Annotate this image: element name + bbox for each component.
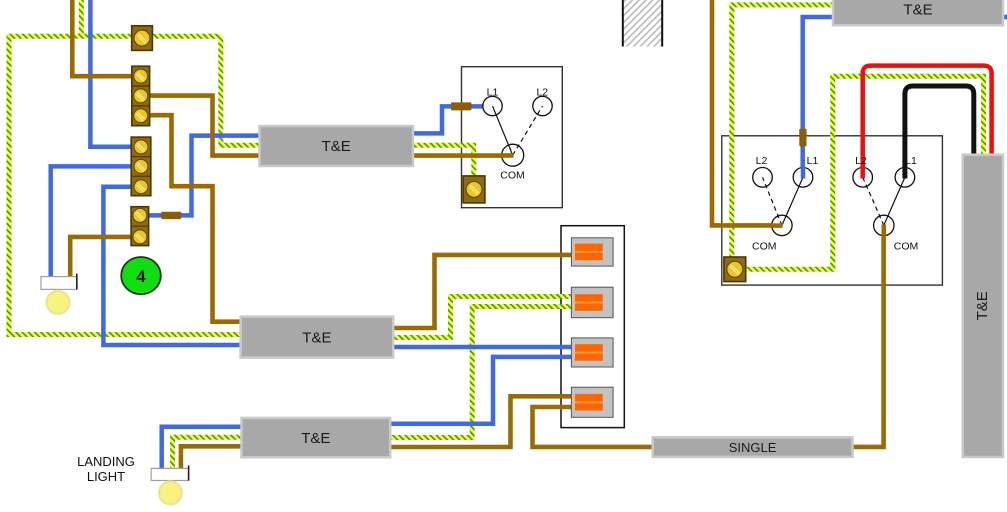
svg-text:T&E: T&E	[903, 2, 932, 19]
terminal T3 2-way	[131, 207, 149, 246]
node L2	[533, 96, 552, 115]
pole solid to L1	[884, 177, 905, 225]
wire brown BR6 single cable to junction U4	[533, 407, 659, 447]
wire red R1 switch2 L2 to vertical T&E	[863, 66, 992, 178]
node L1	[483, 96, 502, 115]
svg-text:L1: L1	[487, 87, 499, 99]
switch2b contacts	[853, 155, 918, 252]
pole solid to L1	[493, 106, 513, 155]
switch box U1 (single two-way switch)	[462, 67, 563, 208]
switch2a contacts	[752, 155, 818, 252]
earth terminal TEB in switch2 box	[724, 257, 746, 282]
wire red stub into L2	[860, 167, 865, 179]
wire blue B4 switched live to switch L1	[140, 106, 493, 215]
svg-text:L2: L2	[536, 87, 548, 99]
node L2	[853, 168, 873, 188]
junction box JB	[561, 226, 624, 428]
wire earth E5 top right loop to vertical T&E	[732, 5, 984, 269]
switch1 contacts	[483, 87, 552, 182]
cable SINGLE	[653, 437, 853, 457]
earth terminal TEA below switch1	[463, 176, 485, 203]
wire brown stub into COM	[771, 223, 783, 228]
sleeve S1 brown sleeve on blue	[161, 212, 181, 219]
wire earth E2 main left loop to junction U2	[9, 36, 580, 337]
svg-text:LIGHT: LIGHT	[87, 469, 125, 484]
wire black stub into L1	[902, 167, 907, 179]
wire earth E1 top stub	[79, 0, 84, 36]
wire brown BR7 switch2 COM to single cable	[846, 225, 884, 447]
svg-text:L2: L2	[855, 155, 867, 167]
junction connector U1	[571, 238, 613, 266]
node COM	[502, 144, 524, 166]
label landing light	[77, 454, 135, 484]
wire earth E3 branch to switch earth terminal	[221, 36, 474, 190]
light2 landing light fixture	[151, 465, 189, 504]
wire brown BR4 terminal T3 screw2 to light1	[70, 237, 140, 278]
terminal T1 3-way	[132, 66, 150, 126]
junction connector U4	[571, 387, 613, 417]
node L1	[793, 168, 813, 188]
junction connector U3	[571, 338, 613, 367]
cable TE3	[242, 418, 391, 457]
svg-text:L2: L2	[756, 155, 768, 167]
cable TE2	[241, 317, 394, 358]
wire black K1 switch2 L1 to vertical T&E	[905, 86, 974, 177]
svg-text:T&E: T&E	[974, 291, 991, 320]
wire brown stub out of COM	[881, 225, 886, 237]
wire brown BR8 top to switch1 COM	[712, 0, 782, 225]
cable TE1	[260, 126, 414, 166]
svg-text:COM: COM	[752, 240, 777, 252]
cable TE4 top right	[833, 0, 1003, 25]
wire brown BR5 landing light to junction U4	[181, 396, 580, 468]
wire earth E4 landing light loop to junction U2	[173, 307, 580, 469]
pole solid to L1	[782, 177, 803, 225]
wire blue B5 landing light to junction U3	[162, 357, 580, 469]
wire brown BR3 terminal T1 screw3 to junction U1	[149, 115, 580, 328]
svg-text:COM: COM	[500, 170, 525, 182]
pole dashed to L2	[863, 177, 884, 225]
svg-text:4: 4	[136, 267, 146, 286]
light1 fixture	[41, 274, 77, 314]
svg-text:COM: COM	[894, 240, 919, 252]
svg-text:T&E: T&E	[302, 330, 331, 347]
wire brown stub into COM	[501, 153, 514, 158]
sleeve S3 brown sleeve on blue at switch1 L1	[799, 129, 806, 147]
svg-text:T&E: T&E	[301, 430, 330, 447]
node L2	[753, 168, 773, 188]
sleeve S2 brown sleeve on blue at L1	[451, 102, 471, 110]
switch box U2 (double two-way switch)	[722, 136, 943, 285]
node L1	[895, 168, 915, 188]
svg-text:SINGLE: SINGLE	[729, 440, 777, 455]
wire blue B3 terminal T2 screw3 to junction U3	[103, 187, 580, 347]
wire blue B2 light1 to terminal T2 screw2	[51, 166, 140, 277]
svg-text:L1: L1	[905, 155, 917, 167]
node COM	[874, 215, 894, 235]
node 4 marker	[121, 257, 161, 294]
svg-text:LANDING: LANDING	[77, 454, 135, 469]
svg-text:L1: L1	[807, 155, 819, 167]
pole dashed to L2	[513, 106, 543, 155]
hatched wall block	[622, 0, 663, 47]
terminal T0 earth junction	[132, 26, 153, 51]
wire blue stub into L1	[801, 167, 806, 179]
terminal T2 3-way	[131, 137, 151, 196]
cable TE5 vertical right	[963, 155, 1003, 457]
wire blue B1 to terminal T2 screw1	[90, 0, 140, 147]
wire brown BR1 top to terminal T1 screw1	[72, 0, 140, 76]
pole dashed to L2	[763, 177, 782, 225]
svg-text:T&E: T&E	[322, 138, 351, 155]
node COM	[772, 215, 792, 235]
junction connector U2	[571, 287, 613, 318]
wire brown BR2 terminal T1 screw2 to switch COM	[149, 96, 513, 156]
wire blue B6 top right T&E to switch2 L1	[803, 17, 1007, 177]
